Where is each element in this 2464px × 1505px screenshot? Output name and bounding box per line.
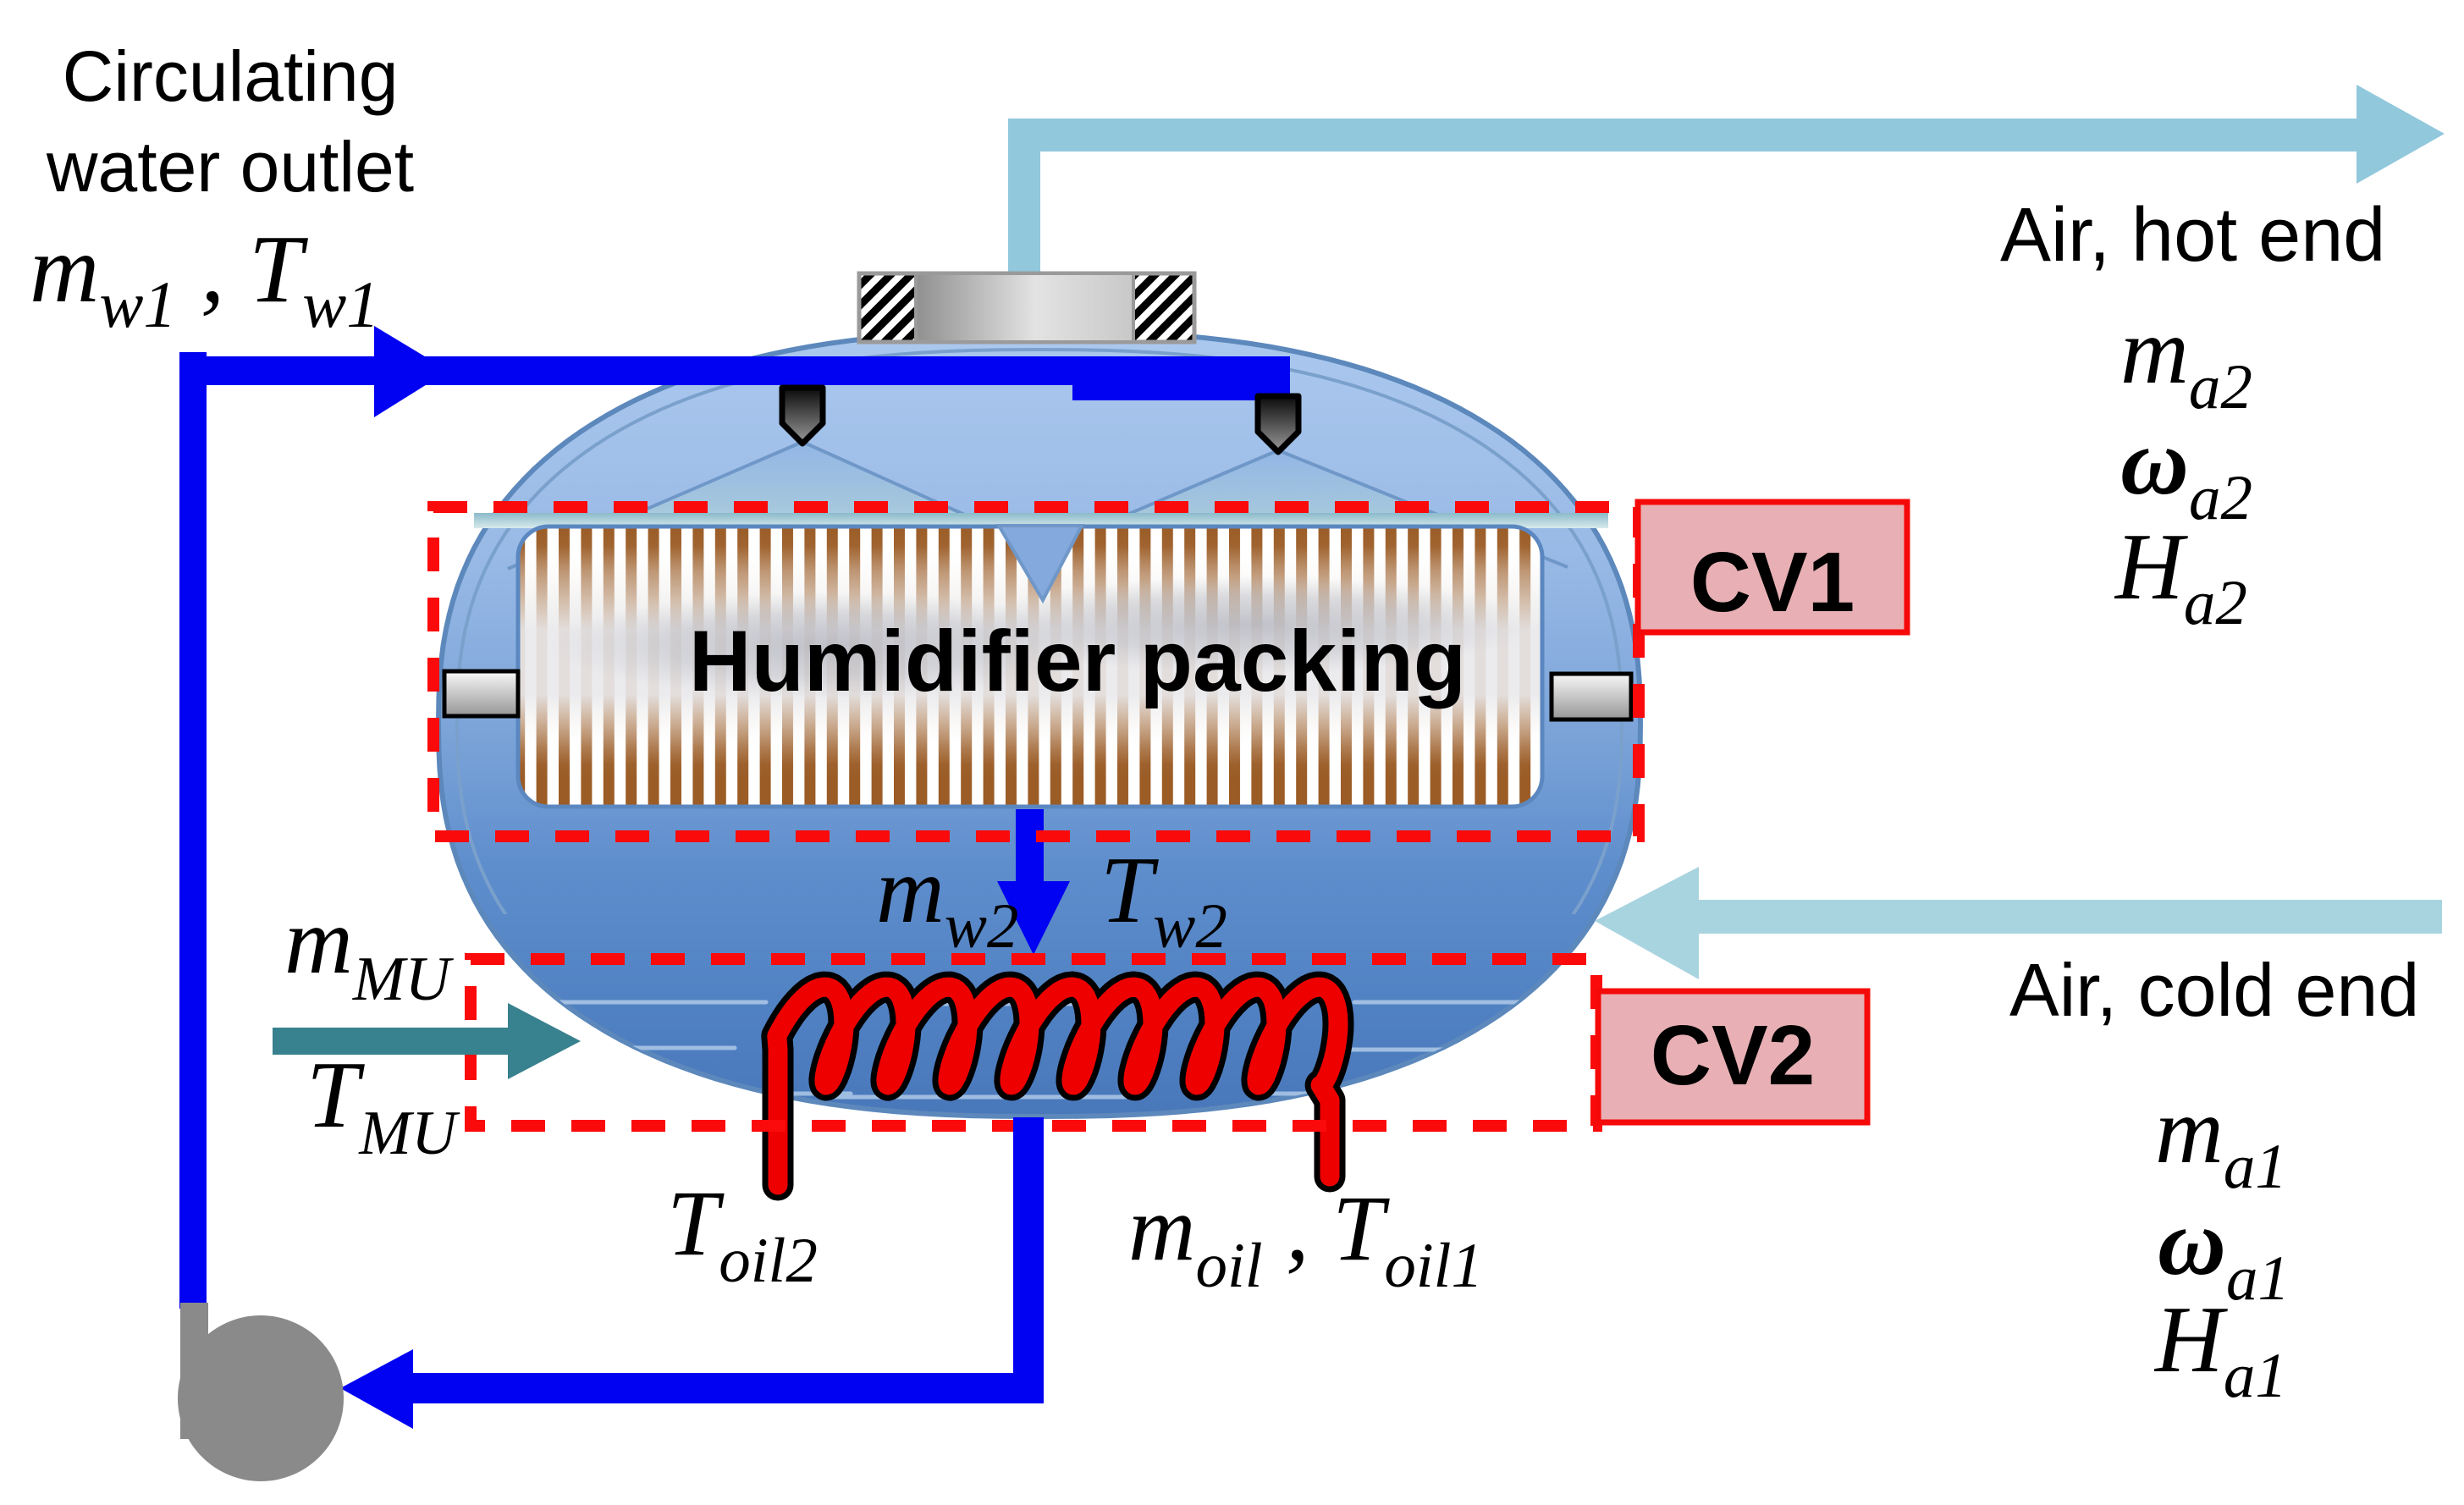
spray header pipe right step bbox=[1072, 356, 1290, 400]
CV1 label box bbox=[1638, 502, 1907, 632]
make-up water arrow bbox=[273, 1028, 508, 1055]
air cold-end pipe bbox=[1699, 900, 2442, 934]
nozzle left bbox=[782, 388, 823, 444]
air cold-end arrowhead bbox=[1595, 867, 1699, 979]
svg-text:mMU: mMU bbox=[284, 889, 455, 1014]
heating coil bbox=[777, 987, 1338, 1185]
return arrowhead bbox=[340, 1349, 413, 1429]
spray cone V notch bbox=[999, 526, 1082, 600]
water return pipe horizontal bbox=[413, 1373, 1044, 1403]
CV1 dashed boundary bbox=[433, 507, 1639, 836]
tank inner wall bbox=[457, 350, 1622, 1098]
svg-text:Circulating: Circulating bbox=[63, 36, 399, 116]
water streaks bbox=[521, 1002, 1581, 1097]
CV2 dashed boundary bbox=[471, 959, 1596, 1126]
svg-text:Humidifier packing: Humidifier packing bbox=[689, 613, 1466, 709]
svg-text:ma1: ma1 bbox=[2155, 1078, 2287, 1202]
inlet arrowhead bbox=[374, 326, 449, 417]
spray cone left bbox=[555, 442, 1041, 549]
m_w2 down arrow bbox=[1016, 809, 1044, 885]
teal mist band above packing bbox=[474, 513, 1608, 528]
pump inlet stub bbox=[180, 1303, 208, 1439]
svg-text:ma2: ma2 bbox=[2120, 299, 2252, 422]
svg-text:Air, hot end: Air, hot end bbox=[2000, 193, 2385, 278]
svg-text:Air, cold end: Air, cold end bbox=[2009, 948, 2419, 1032]
water inlet pipe: horizontal + spray header bbox=[179, 356, 1290, 385]
svg-text:CV2: CV2 bbox=[1651, 1008, 1816, 1103]
svg-text:Toil2: Toil2 bbox=[667, 1171, 818, 1296]
humidifier packing body bbox=[518, 526, 1542, 807]
cap hatched flange bbox=[859, 273, 1194, 342]
air hot-end pipe horizontal bbox=[1008, 119, 2357, 152]
nozzle right bbox=[1258, 396, 1298, 452]
air hot-end pipe vertical bbox=[1008, 119, 1040, 279]
svg-text:CV1: CV1 bbox=[1690, 535, 1855, 630]
air hot-end arrowhead bbox=[2357, 85, 2445, 184]
smoke clouds bbox=[550, 593, 1109, 697]
svg-text:water outlet: water outlet bbox=[46, 127, 414, 207]
svg-text:mw1 , Tw1: mw1 , Tw1 bbox=[30, 215, 379, 341]
right pin bbox=[1552, 674, 1631, 719]
pump body bbox=[178, 1315, 344, 1481]
water return pipe vertical bbox=[1013, 1117, 1044, 1403]
cap body bbox=[916, 273, 1133, 342]
water inlet pipe: vertical from pump bbox=[179, 352, 207, 1309]
svg-text:moil , Toil1: moil , Toil1 bbox=[1128, 1177, 1483, 1301]
CV2 label box bbox=[1598, 991, 1867, 1122]
tank body bbox=[438, 331, 1640, 1116]
spray cone right bbox=[1045, 450, 1527, 550]
left pin bbox=[444, 671, 518, 716]
svg-text:TMU: TMU bbox=[306, 1043, 460, 1168]
